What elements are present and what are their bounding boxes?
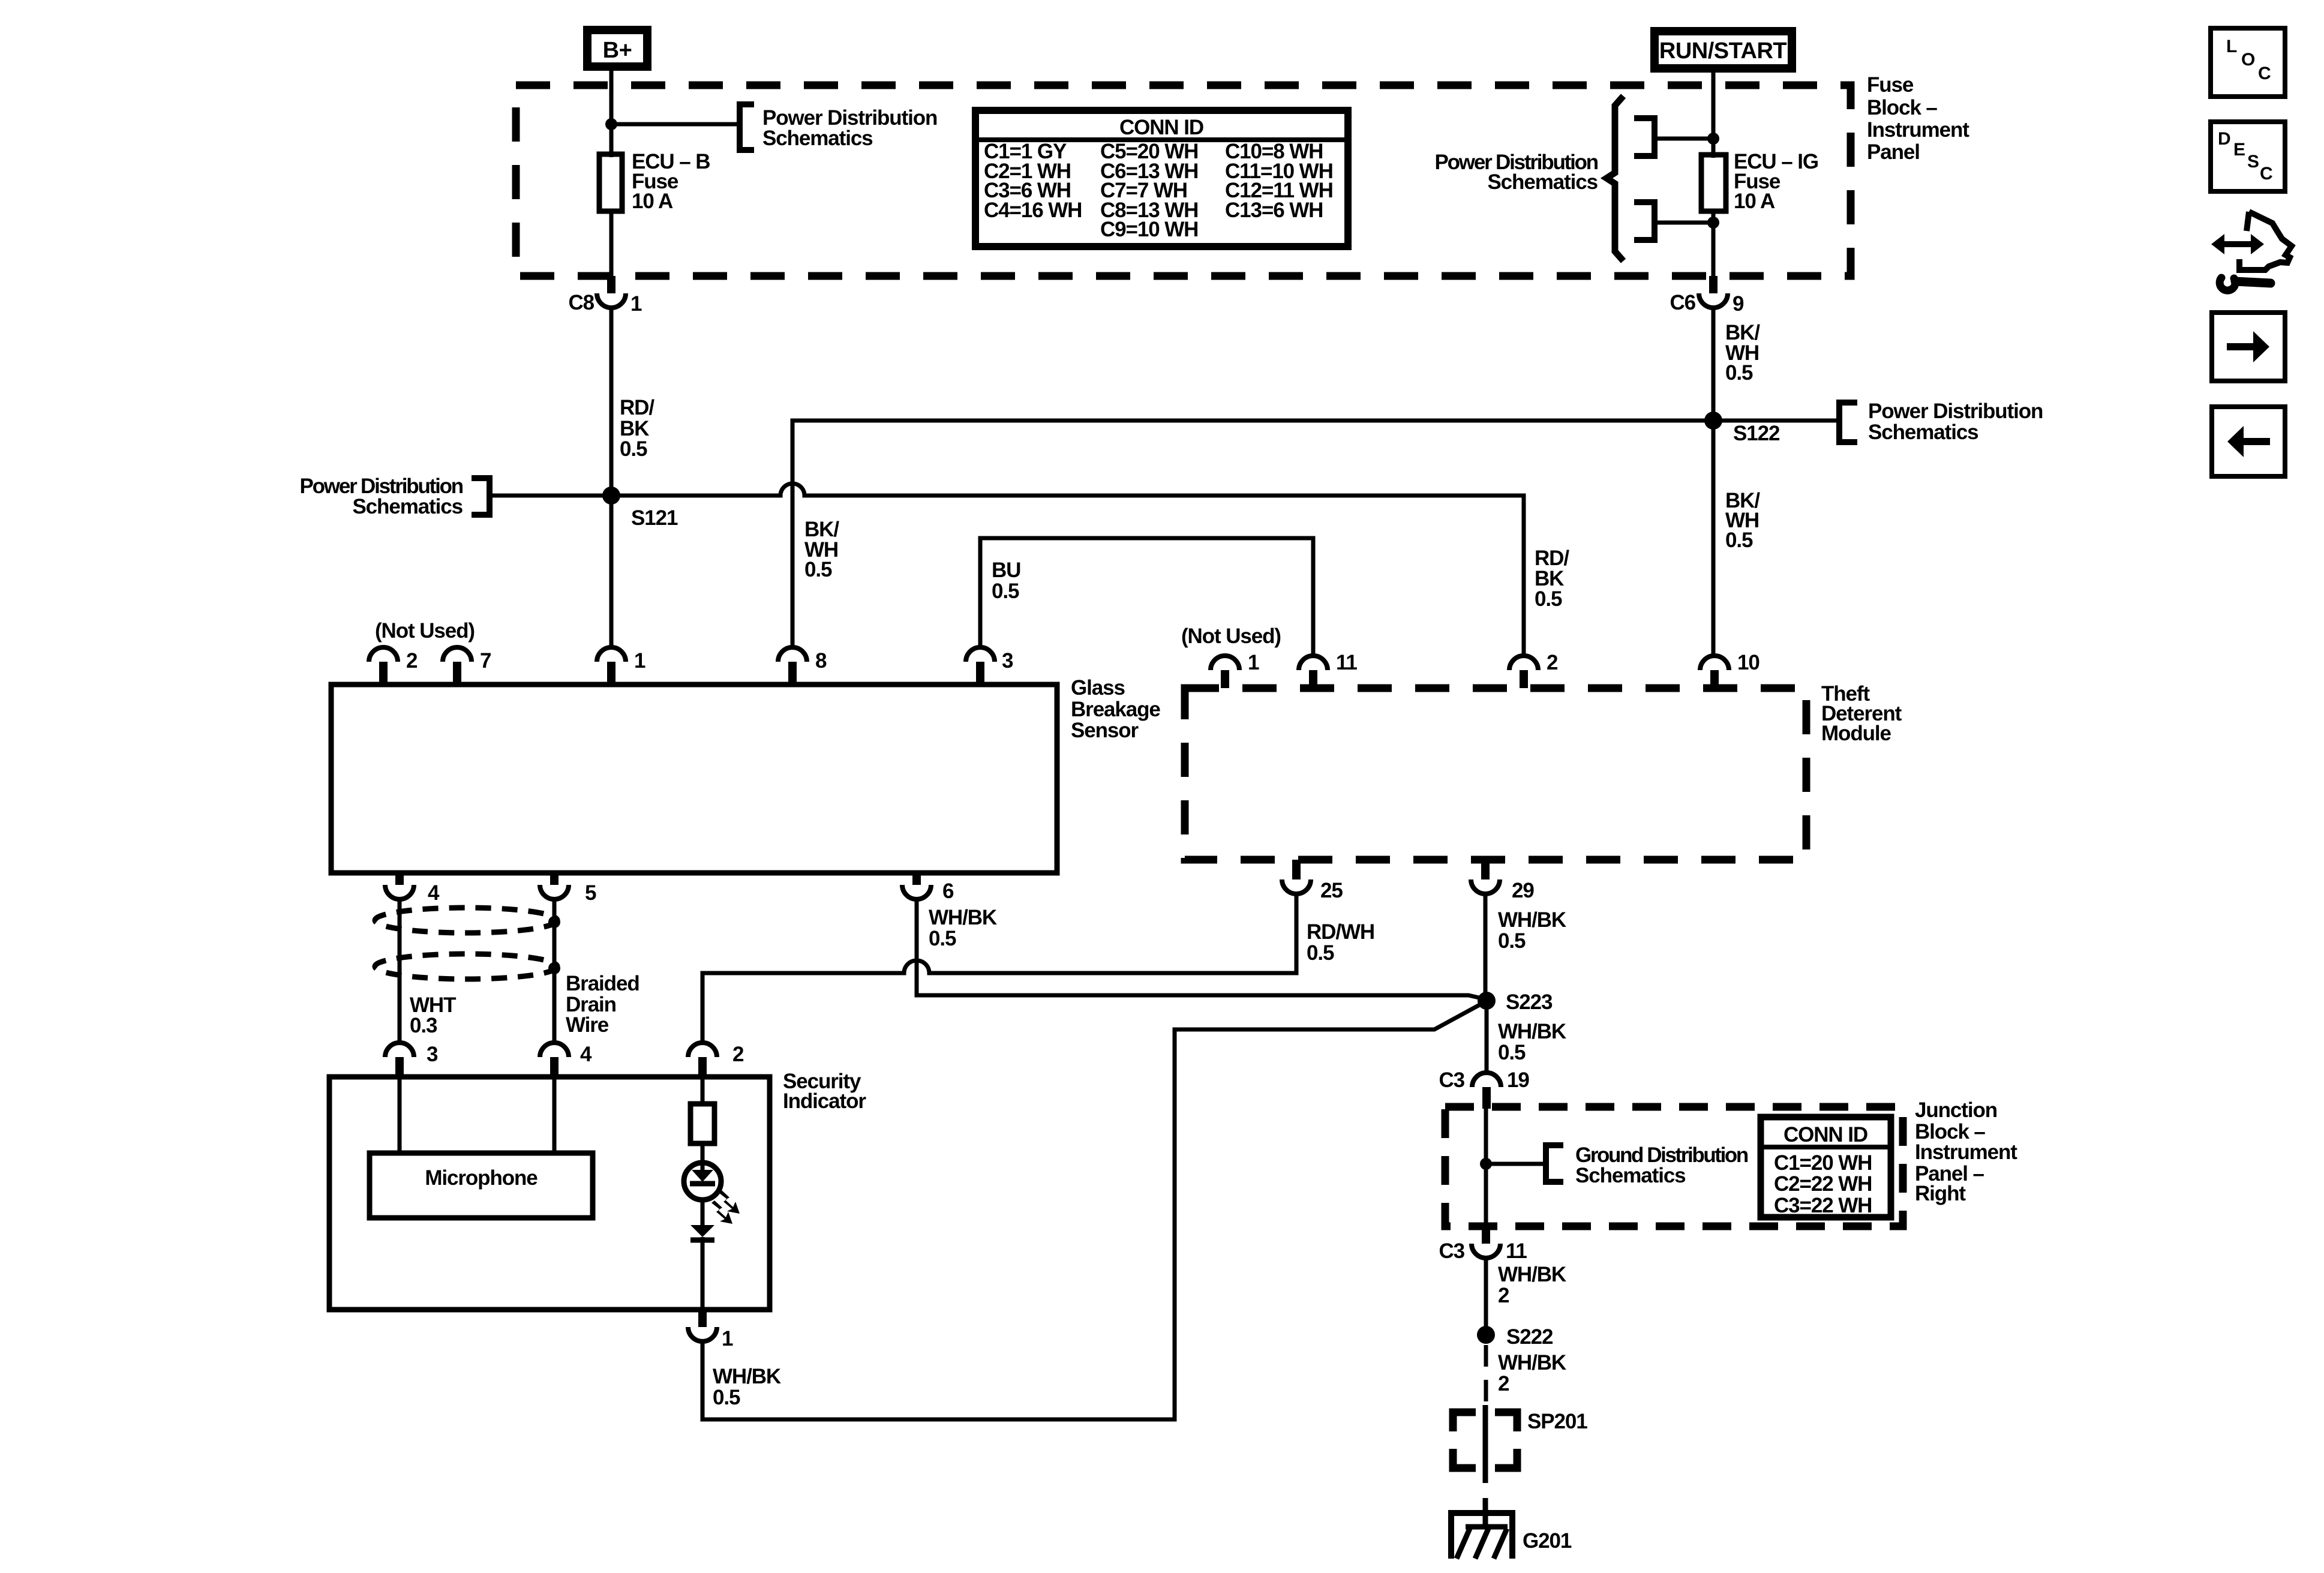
connector C6 stub — [1709, 276, 1718, 293]
svg-text:G201: G201 — [1523, 1529, 1572, 1553]
power distribution schematics bracket (right) — [1839, 403, 1857, 442]
wire LED to diode — [701, 1197, 705, 1226]
svg-text:11: 11 — [1336, 651, 1357, 674]
connector C6 arc — [1699, 293, 1728, 308]
wire C8 to S121 to glass breakage sensor pin 1 — [609, 308, 614, 647]
junction dot lower tap — [1707, 217, 1719, 229]
curly brace power distribution — [1607, 96, 1623, 261]
wire C6 to S122 to theft deterrent module pin 10 — [1712, 308, 1716, 656]
svg-text:BU: BU — [992, 559, 1020, 582]
svg-text:D: D — [2218, 129, 2231, 149]
power distribution schematics bracket (middle left) — [472, 478, 490, 515]
svg-text:WH/BK: WH/BK — [929, 906, 997, 929]
splice S223 junction dot — [1478, 992, 1496, 1010]
wire label BK/WH 0.5 left — [804, 518, 839, 581]
wire label WH/BK 0.5 pin6 — [929, 906, 997, 950]
GBS pin 3 connector — [966, 647, 995, 685]
svg-text:0.5: 0.5 — [713, 1386, 740, 1409]
icon arrow right box — [2212, 313, 2285, 381]
svg-text:L: L — [2226, 37, 2237, 56]
svg-text:Schematics: Schematics — [762, 127, 873, 150]
svg-text:8: 8 — [815, 649, 827, 673]
svg-text:3: 3 — [1002, 649, 1013, 673]
splice S222 junction dot — [1477, 1326, 1495, 1344]
power distribution schematics label (right) — [1868, 400, 2043, 444]
wire pin 3 to microphone — [398, 1077, 402, 1153]
svg-text:Power Distribution: Power Distribution — [1868, 400, 2043, 423]
power distribution schematics label (middle left) — [299, 475, 463, 518]
wire through SP201 — [1483, 1405, 1488, 1483]
theft deterrent module label — [1821, 682, 1902, 745]
svg-text:19: 19 — [1507, 1068, 1529, 1092]
icon car diagnostic — [2211, 212, 2292, 290]
microphone box — [370, 1153, 593, 1218]
security indicator pin 1 connector (bottom) — [688, 1310, 717, 1341]
junction dot upper tap — [1707, 133, 1719, 145]
LED light arrows — [711, 1190, 740, 1224]
svg-text:2: 2 — [1498, 1372, 1509, 1395]
svg-text:Schematics: Schematics — [352, 495, 463, 518]
svg-text:Instrument: Instrument — [1867, 118, 1969, 142]
svg-text:SP201: SP201 — [1527, 1410, 1587, 1433]
svg-text:RD/: RD/ — [620, 396, 654, 419]
wire S121 to power distribution bracket (left) — [493, 494, 611, 498]
wire resistor to LED — [701, 1143, 705, 1164]
svg-text:S222: S222 — [1506, 1325, 1553, 1349]
svg-text:C9=10 WH: C9=10 WH — [1100, 218, 1198, 241]
CONN ID table (fuse block) — [975, 110, 1348, 247]
TDM pin 11 connector — [1299, 656, 1328, 688]
power distribution schematics label (top right) — [1434, 151, 1598, 194]
svg-text:Panel: Panel — [1867, 140, 1920, 164]
wire lower tap to connector bracket — [1656, 221, 1713, 225]
wire WHT microphone signal — [398, 899, 402, 1043]
svg-text:5: 5 — [585, 881, 596, 905]
wire SP201 to ground G201 — [1483, 1498, 1488, 1527]
GBS pin 2 connector — [369, 647, 398, 685]
GBS pin 4 connector (bottom) — [385, 873, 414, 899]
fuse F1 ECU-B — [599, 154, 622, 211]
wire pin 2 to LED resistor — [701, 1077, 705, 1105]
svg-text:WH/BK: WH/BK — [1498, 908, 1566, 932]
wire RUN/START to ECU-IG fuse — [1712, 68, 1716, 158]
svg-text:(Not Used): (Not Used) — [375, 619, 475, 643]
wire label WH/BK 2 upper — [1498, 1263, 1566, 1307]
svg-text:0.5: 0.5 — [992, 580, 1019, 603]
svg-text:C8: C8 — [568, 291, 594, 314]
svg-text:C: C — [2260, 164, 2273, 184]
svg-text:C3: C3 — [1439, 1239, 1464, 1263]
svg-text:S122: S122 — [1733, 422, 1780, 445]
svg-text:7: 7 — [480, 649, 491, 673]
svg-text:0.3: 0.3 — [410, 1014, 437, 1037]
security indicator pin 2 connector — [688, 1043, 717, 1077]
wire ECU-IG fuse to connector C6 — [1712, 211, 1716, 277]
icon arrow left box — [2212, 407, 2285, 476]
wire pin 4 to microphone — [553, 1077, 557, 1153]
svg-text:Instrument: Instrument — [1915, 1140, 2017, 1164]
power distribution schematics label (top left) — [762, 106, 937, 150]
wire RD/WH theft deterrent pin 25 to security indicator pin 2 with hop — [702, 894, 1296, 1043]
theft deterrent module dashed box — [1185, 688, 1806, 860]
security indicator pin 3 connector — [385, 1043, 414, 1077]
svg-text:C2=22 WH: C2=22 WH — [1774, 1172, 1872, 1196]
TDM pin 29 connector (bottom) — [1471, 860, 1500, 894]
splice pack SP201 left bracket — [1453, 1412, 1476, 1468]
fuse F2 ECU-IG — [1701, 155, 1726, 211]
junction block dashed box — [1445, 1107, 1903, 1226]
TDM pin 1 connector — [1211, 656, 1239, 688]
svg-text:Braided: Braided — [566, 972, 639, 995]
ground distribution schematics label — [1575, 1143, 1748, 1187]
splice pack SP201 right bracket — [1495, 1412, 1517, 1468]
svg-text:Junction: Junction — [1915, 1098, 1997, 1122]
svg-text:10 A: 10 A — [1734, 190, 1775, 213]
wire B+ to ECU-B fuse — [609, 67, 614, 157]
svg-text:Right: Right — [1915, 1182, 1966, 1205]
fuse block label — [1867, 73, 1969, 164]
svg-text:WH/BK: WH/BK — [713, 1365, 781, 1388]
svg-text:(Not Used): (Not Used) — [1181, 625, 1281, 648]
svg-text:Microphone: Microphone — [425, 1166, 538, 1190]
wire WH/BK from GBS pin 6 to splice S223 — [917, 899, 1484, 999]
wire label WH/BK 0.5 below S223 — [1498, 1020, 1566, 1064]
svg-text:10: 10 — [1737, 651, 1759, 674]
junction dot on B+ feed — [605, 118, 617, 130]
security indicator label — [783, 1070, 866, 1113]
icon DESC box — [2211, 122, 2285, 191]
wire label RD/BK 0.5 upper — [620, 396, 654, 461]
security indicator box — [329, 1077, 770, 1310]
LED D1 triangle — [692, 1170, 713, 1182]
icon LOC box — [2211, 28, 2285, 97]
connector C3 pin 19 arc — [1472, 1073, 1501, 1087]
glass breakage sensor label — [1071, 676, 1160, 742]
svg-text:0.5: 0.5 — [620, 437, 647, 461]
svg-text:WH/BK: WH/BK — [1498, 1263, 1566, 1286]
wire diode to box bottom — [701, 1237, 705, 1310]
svg-text:0.5: 0.5 — [1535, 587, 1562, 611]
braided shield loop lower — [375, 954, 557, 979]
svg-text:Schematics: Schematics — [1868, 421, 1978, 444]
svg-text:C6: C6 — [1670, 291, 1695, 314]
svg-text:1: 1 — [630, 292, 642, 316]
svg-text:Breakage: Breakage — [1071, 698, 1160, 721]
svg-text:1: 1 — [634, 649, 645, 673]
svg-text:0.5: 0.5 — [1307, 941, 1334, 965]
ECU-IG fuse value label — [1734, 150, 1818, 213]
TDM pin 25 connector (bottom) — [1282, 860, 1311, 894]
wire BU glass breakage pin 3 to theft deterrent pin 11 — [980, 538, 1313, 656]
svg-text:S223: S223 — [1506, 990, 1553, 1014]
connector C8 stub — [607, 276, 615, 293]
resistor R1 security indicator — [690, 1104, 714, 1143]
svg-text:25: 25 — [1320, 879, 1343, 902]
svg-text:Indicator: Indicator — [783, 1089, 866, 1113]
wire S122 to power distribution bracket (right) — [1713, 419, 1836, 423]
svg-text:WH/BK: WH/BK — [1498, 1351, 1566, 1374]
svg-text:C3=22 WH: C3=22 WH — [1774, 1194, 1872, 1217]
wire label WH/BK 0.5 pin 1 — [713, 1365, 781, 1409]
braided drain wire label — [566, 972, 639, 1037]
wire braided drain — [553, 899, 557, 1043]
wire WH/BK theft deterrent pin 29 to splice S223 — [1484, 894, 1488, 996]
svg-text:C1=20 WH: C1=20 WH — [1774, 1151, 1872, 1175]
svg-text:1: 1 — [1248, 651, 1259, 674]
svg-text:Schematics: Schematics — [1487, 170, 1598, 194]
TDM pin 10 connector — [1700, 656, 1729, 688]
svg-text:C3: C3 — [1439, 1068, 1464, 1092]
wire upper tap to connector bracket — [1656, 137, 1713, 141]
svg-text:2: 2 — [1547, 651, 1558, 674]
svg-text:0.5: 0.5 — [1725, 529, 1753, 552]
wire WH/BK security pin 1 to splice S223 — [702, 1004, 1482, 1419]
dashed wire S222 to SP201 — [1484, 1345, 1488, 1409]
svg-text:4: 4 — [580, 1043, 592, 1066]
svg-text:Wire: Wire — [566, 1013, 609, 1037]
connector C8 arc — [597, 293, 626, 308]
shield junction dot lower — [548, 962, 560, 974]
svg-text:CONN ID: CONN ID — [1119, 116, 1203, 139]
TDM pin 2 connector — [1509, 656, 1538, 688]
LED D1 circle — [684, 1163, 721, 1200]
svg-text:Module: Module — [1821, 722, 1891, 745]
connector C3 pin 19 stub — [1482, 1087, 1491, 1109]
wire label WH/BK 2 lower — [1498, 1351, 1566, 1395]
svg-text:0.5: 0.5 — [1498, 1041, 1526, 1064]
svg-text:S121: S121 — [631, 506, 678, 530]
connector C3 pin 11 stub — [1482, 1226, 1490, 1244]
diode D2 triangle — [690, 1225, 714, 1237]
wire S121 to theft deterrent module pin 2 with hop over BK/WH wire — [611, 484, 1524, 656]
splice S122 junction dot — [1704, 412, 1722, 430]
svg-text:Sensor: Sensor — [1071, 719, 1139, 742]
svg-text:WH/BK: WH/BK — [1498, 1020, 1566, 1043]
splice S121 junction dot — [602, 487, 620, 505]
svg-text:CONN ID: CONN ID — [1783, 1123, 1867, 1146]
LED D1 cathode bar — [690, 1181, 715, 1187]
security indicator pin 4 connector — [540, 1043, 569, 1077]
wire through junction block — [1484, 1107, 1488, 1226]
svg-text:Block –: Block – — [1867, 96, 1937, 119]
GBS pin 7 connector — [443, 647, 472, 685]
svg-text:C: C — [2258, 64, 2271, 83]
svg-text:E: E — [2233, 140, 2245, 160]
connector bracket lower (ECU-IG feed) — [1634, 202, 1655, 240]
wire LED internal — [701, 1164, 705, 1170]
diode D2 cathode bar — [690, 1238, 714, 1243]
svg-text:O: O — [2241, 50, 2255, 70]
wire S122 left branch to glass breakage sensor pin 8 — [792, 421, 1713, 647]
svg-text:3: 3 — [427, 1043, 438, 1066]
wire S223 to C3 pin 19 — [1485, 1001, 1489, 1073]
connector C3 pin 11 arc — [1472, 1244, 1500, 1258]
svg-text:29: 29 — [1512, 879, 1534, 902]
svg-text:4: 4 — [428, 881, 440, 905]
glass breakage sensor box — [331, 685, 1057, 873]
GBS pin 5 connector (bottom) — [540, 873, 569, 899]
wire label BK/WH 0.5 lower right — [1725, 489, 1760, 552]
svg-text:Schematics: Schematics — [1575, 1164, 1686, 1187]
CONN ID table (junction block) — [1761, 1117, 1891, 1217]
svg-text:9: 9 — [1733, 292, 1744, 316]
power distribution schematics bracket (top left) — [740, 104, 754, 150]
wire label BK/WH 0.5 upper right — [1725, 321, 1760, 385]
wire label RD/BK 0.5 right — [1535, 547, 1569, 611]
svg-text:Fuse: Fuse — [1867, 73, 1914, 97]
shield junction dot upper — [548, 916, 560, 928]
GBS pin 6 connector (bottom) — [902, 873, 931, 899]
svg-text:1: 1 — [722, 1327, 733, 1350]
B+ power symbol — [587, 30, 647, 67]
ECU-B fuse value label — [632, 150, 710, 213]
svg-text:6: 6 — [942, 879, 954, 903]
junction block label — [1915, 1098, 2017, 1205]
svg-text:B+: B+ — [603, 38, 632, 63]
wire ECU-B fuse to connector C8 — [609, 211, 614, 277]
GBS pin 8 connector — [778, 647, 807, 685]
RUN/START power symbol — [1655, 31, 1792, 68]
svg-text:0.5: 0.5 — [1498, 929, 1526, 953]
svg-text:C13=6 WH: C13=6 WH — [1225, 199, 1323, 222]
ground G201 symbol — [1448, 1513, 1515, 1559]
wire label BU 0.5 — [992, 559, 1020, 603]
wire label WHT 0.3 — [410, 993, 456, 1037]
connector bracket upper (ECU-IG feed) — [1634, 118, 1655, 156]
svg-text:2: 2 — [406, 649, 418, 673]
ground distribution schematics bracket — [1546, 1145, 1563, 1182]
svg-text:0.5: 0.5 — [804, 558, 832, 581]
wire label RD/WH 0.5 — [1307, 920, 1374, 965]
wire C3 pin 11 to splice S222 — [1484, 1258, 1488, 1327]
fuse block instrument panel dashed box — [516, 85, 1851, 276]
svg-text:10 A: 10 A — [632, 190, 673, 213]
svg-text:0.5: 0.5 — [929, 927, 956, 950]
GBS pin 1 connector — [597, 647, 626, 685]
svg-text:RUN/START: RUN/START — [1659, 38, 1787, 64]
svg-text:RD/WH: RD/WH — [1307, 920, 1374, 944]
svg-text:Glass: Glass — [1071, 676, 1125, 700]
braided shield loop upper — [375, 908, 557, 933]
wire tap to ground distribution bracket — [1486, 1162, 1543, 1166]
svg-text:C4=16 WH: C4=16 WH — [984, 199, 1082, 222]
junction dot ground tap — [1480, 1158, 1492, 1170]
svg-text:11: 11 — [1506, 1239, 1527, 1263]
svg-text:0.5: 0.5 — [1725, 361, 1753, 385]
svg-text:2: 2 — [732, 1043, 744, 1066]
wire label WH/BK 0.5 pin 29 — [1498, 908, 1566, 953]
wire tap to power distribution bracket — [611, 122, 738, 127]
svg-text:S: S — [2247, 152, 2259, 172]
svg-text:2: 2 — [1498, 1284, 1509, 1307]
